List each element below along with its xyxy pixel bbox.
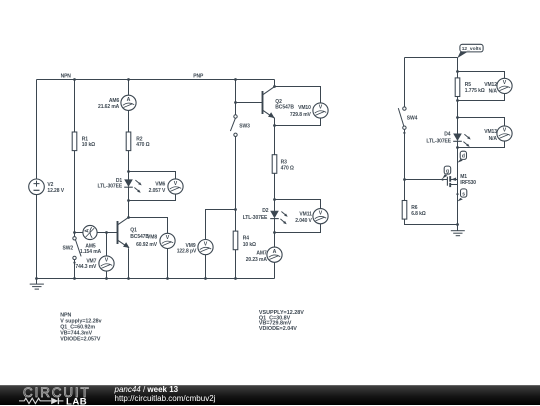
wire Q2 base xyxy=(236,102,263,104)
voltmeter VM9 xyxy=(198,240,213,255)
svg-text:PNP: PNP xyxy=(193,74,204,80)
wire SW4 bottom to R6 xyxy=(404,129,406,200)
svg-text:10 kΩ: 10 kΩ xyxy=(243,242,256,248)
wire VM7 bottom lead xyxy=(106,271,108,278)
junction top rail at R1 branch xyxy=(73,78,76,81)
wire AM5 right lead to Q1 base xyxy=(97,232,117,234)
wire left branch upper to V2 xyxy=(36,80,38,180)
wire VM10 top loop xyxy=(275,87,321,104)
junction Q2 collector node xyxy=(273,85,276,88)
svg-text:Q1: Q1 xyxy=(130,227,137,233)
junction gate node xyxy=(403,178,406,181)
junction Q2 emitter node xyxy=(273,124,276,127)
wire SW4 branch down xyxy=(404,58,406,107)
wire R5 bottom down to D4 xyxy=(457,97,459,134)
svg-text:V: V xyxy=(204,241,208,247)
voltmeter VM8 xyxy=(160,233,175,248)
pin d box of M1 xyxy=(457,151,466,163)
voltmeter VM10 xyxy=(313,103,328,118)
svg-text:V: V xyxy=(105,258,109,264)
wire D1 cathode down xyxy=(128,187,130,218)
wire AM7 bottom to bottom rail xyxy=(274,262,276,278)
transistor Q1 BC547B xyxy=(118,217,129,248)
ground symbol right xyxy=(451,225,465,236)
resistor R2 xyxy=(126,132,131,151)
junction VM11 top tap xyxy=(273,198,276,201)
svg-text:AM7: AM7 xyxy=(256,251,267,257)
svg-text:VB=744.3mV: VB=744.3mV xyxy=(60,330,92,336)
svg-text:V: V xyxy=(319,210,323,216)
resistor R5 xyxy=(455,78,460,97)
LED D2 LTL-307EE xyxy=(270,211,288,224)
ammeter AM6 xyxy=(121,95,136,110)
junction VM13 top tap xyxy=(456,116,459,119)
svg-text:2.057 V: 2.057 V xyxy=(149,188,166,194)
wire R1 bottom to AM5 node xyxy=(74,151,76,237)
svg-text:21.62 mA: 21.62 mA xyxy=(98,104,120,110)
LED D4 LTL-307EE xyxy=(453,134,471,147)
voltmeter VM11 xyxy=(313,209,328,224)
pin s box of M1 xyxy=(456,189,466,202)
svg-text:20.23 mA: 20.23 mA xyxy=(246,257,268,263)
junction node A (SW3/VM9/R4) xyxy=(234,208,237,211)
svg-text:g: g xyxy=(446,168,449,174)
ammeter AM7 xyxy=(267,247,282,262)
wire VM12 top loop xyxy=(458,72,505,79)
svg-text:IRF530: IRF530 xyxy=(460,180,476,186)
svg-text:12_volts: 12_volts xyxy=(462,46,482,52)
voltmeter VM7 xyxy=(99,256,114,271)
junction VM11 bottom tap xyxy=(273,231,276,234)
junction bottom rail at VM9 xyxy=(204,277,207,280)
junction bottom rail at VM7 xyxy=(105,277,108,280)
svg-text:N/A: N/A xyxy=(489,89,498,95)
LED D1 LTL-307EE xyxy=(124,180,142,193)
node annotation text block VSUPPLY xyxy=(259,310,304,332)
wire VM9 top loop xyxy=(206,210,236,240)
voltage source V2 xyxy=(29,179,45,195)
resistor R1 xyxy=(72,132,77,151)
svg-text:VM11: VM11 xyxy=(299,212,312,218)
wire SW3 bottom to node A xyxy=(235,137,237,210)
wire VM11 bottom loop xyxy=(275,224,321,233)
svg-text:D4: D4 xyxy=(444,131,451,137)
svg-text:60.92 mV: 60.92 mV xyxy=(136,242,158,248)
junction Q1 collector node / VM8 tap xyxy=(127,216,130,219)
svg-text:470 Ω: 470 Ω xyxy=(281,165,294,171)
pin g box of M1 xyxy=(442,166,451,180)
svg-text:V: V xyxy=(503,128,507,134)
svg-text:D2: D2 xyxy=(262,208,269,214)
svg-text:N/A: N/A xyxy=(489,136,498,142)
CircuitLab logo diode xyxy=(51,397,58,404)
wire AM6 branch top xyxy=(128,80,130,96)
junction VM13 bottom tap xyxy=(456,146,459,149)
wire SW2 bottom to bottom rail xyxy=(74,260,76,279)
wire VM13 bottom loop xyxy=(458,141,505,147)
junction bottom rail at R4 xyxy=(234,277,237,280)
svg-text:SW3: SW3 xyxy=(239,124,250,130)
wire right drop of top rail to Q2 collector node xyxy=(274,80,276,87)
junction bottom rail at SW2 xyxy=(73,277,76,280)
wire VM13 top loop xyxy=(458,118,505,126)
wire AM6 to R2 xyxy=(128,110,130,132)
junction VM6 bottom tap xyxy=(127,199,130,202)
svg-text:LTL-307EE: LTL-307EE xyxy=(243,215,268,221)
transistor Q2 BC547B xyxy=(263,87,274,118)
wire VM9 bottom lead xyxy=(205,255,207,279)
net flag 12_volts xyxy=(457,44,483,58)
svg-text:1.154 mA: 1.154 mA xyxy=(80,249,102,255)
svg-text:A: A xyxy=(273,249,277,255)
svg-text:VM12: VM12 xyxy=(484,82,497,88)
wire 12_volts drop xyxy=(457,58,459,78)
switch SW4 xyxy=(398,107,406,134)
switch SW2 xyxy=(73,237,81,264)
svg-text:BC547B: BC547B xyxy=(275,105,294,111)
wire bottom rail xyxy=(37,278,275,280)
svg-text:1.775 kΩ: 1.775 kΩ xyxy=(465,88,485,94)
svg-text:10 kΩ: 10 kΩ xyxy=(82,142,95,148)
svg-text:V: V xyxy=(319,105,323,111)
voltmeter VM12 xyxy=(497,78,512,93)
node annotation text block NPN xyxy=(60,313,101,343)
svg-text:LTL-307EE: LTL-307EE xyxy=(426,138,451,144)
resistor R4 xyxy=(233,231,238,250)
svg-text:12.28 V: 12.28 V xyxy=(47,188,64,194)
voltmeter VM13 xyxy=(497,126,512,141)
svg-text:2.040 V: 2.040 V xyxy=(295,218,312,224)
svg-text:6.8 kΩ: 6.8 kΩ xyxy=(411,211,426,217)
wire VM6 bottom loop xyxy=(129,195,176,201)
junction ground node xyxy=(456,223,459,226)
wire Q2 emitter to R3 xyxy=(274,118,276,155)
CircuitLab logo resistor zigzag xyxy=(19,398,51,403)
svg-text:d: d xyxy=(462,154,465,160)
wire D2 cathode down xyxy=(274,218,276,247)
wire VM11 top loop xyxy=(275,200,321,209)
wire VM12 bottom loop xyxy=(458,94,505,101)
voltmeter VM6 xyxy=(168,179,183,194)
svg-text:470 Ω: 470 Ω xyxy=(136,142,149,148)
junction VM7 tap on base wire xyxy=(105,231,108,234)
junction Q2 base node xyxy=(234,101,237,104)
junction VM6 top tap xyxy=(127,170,130,173)
wire Q1 emitter to bottom rail xyxy=(128,248,130,278)
switch SW3 xyxy=(230,115,237,137)
svg-text:A: A xyxy=(127,97,131,103)
svg-text:LTL-307EE: LTL-307EE xyxy=(98,184,123,190)
svg-text:V: V xyxy=(174,181,178,187)
resistor R3 xyxy=(272,155,277,174)
svg-text:122.8 pV: 122.8 pV xyxy=(177,248,197,254)
svg-text:744.3 mV: 744.3 mV xyxy=(75,264,97,270)
svg-text:729.8 mV: 729.8 mV xyxy=(290,112,312,118)
svg-text:VDIODE=2.04V: VDIODE=2.04V xyxy=(259,326,297,332)
wire top to SW4 branch xyxy=(405,57,458,59)
svg-text:s: s xyxy=(462,191,465,197)
wire AM5 left lead xyxy=(75,232,83,234)
wire R1 branch top xyxy=(74,80,76,133)
svg-text:LAB: LAB xyxy=(66,396,87,406)
ammeter AM5 (rotated) xyxy=(83,225,97,239)
junction VM12 bottom tap xyxy=(456,99,459,102)
wire PNP branch down xyxy=(235,80,237,115)
wire D4 cathode down to M1 drain xyxy=(457,141,459,180)
wire R2 bottom to D1 xyxy=(128,151,130,180)
svg-text:NPN: NPN xyxy=(61,74,72,80)
junction AM5 node xyxy=(73,231,76,234)
wire R3 bottom to D2 xyxy=(274,173,276,211)
svg-text:V: V xyxy=(503,80,507,86)
wire M1 source down to ground xyxy=(457,180,459,225)
svg-text:VM13: VM13 xyxy=(484,129,497,135)
MOSFET M1 IRF530 xyxy=(447,176,457,187)
wire VM7 top lead xyxy=(106,233,108,256)
ground symbol left xyxy=(30,279,44,290)
junction top rail at AM6 branch xyxy=(127,78,130,81)
resistor R6 xyxy=(402,201,407,220)
wire gate xyxy=(405,179,448,181)
wire R4 top lead xyxy=(235,210,237,232)
wire VM8 top loop xyxy=(129,218,168,234)
wire V2 bottom to bottom rail xyxy=(36,195,38,279)
junction top rail at PNP branch xyxy=(234,78,237,81)
wire R6 bottom to ground xyxy=(405,219,458,224)
wire VM6 top loop xyxy=(129,172,176,180)
junction bottom rail at Q1 emitter xyxy=(127,277,130,280)
wire VM8 bottom lead xyxy=(167,249,169,279)
wire R4 bottom lead xyxy=(235,250,237,279)
svg-text:V: V xyxy=(166,235,170,241)
junction bottom rail at VM8 xyxy=(166,277,169,280)
wire top rail NPN/PNP xyxy=(37,79,275,81)
svg-text:A: A xyxy=(85,229,91,233)
junction VM12 top tap xyxy=(456,70,459,73)
svg-text:R4: R4 xyxy=(243,236,250,242)
svg-text:V supply=12.28v: V supply=12.28v xyxy=(60,319,101,325)
svg-text:NPN: NPN xyxy=(60,313,71,319)
svg-text:VM8: VM8 xyxy=(147,235,157,241)
svg-text:VM10: VM10 xyxy=(298,105,311,111)
wire VM10 bottom loop xyxy=(275,118,321,125)
svg-text:VDIODE=2.057V: VDIODE=2.057V xyxy=(60,337,101,343)
svg-text:SW2: SW2 xyxy=(63,245,74,251)
svg-text:VM6: VM6 xyxy=(155,182,165,188)
junction bottom rail at ground xyxy=(35,277,38,280)
svg-text:SW4: SW4 xyxy=(407,115,418,121)
